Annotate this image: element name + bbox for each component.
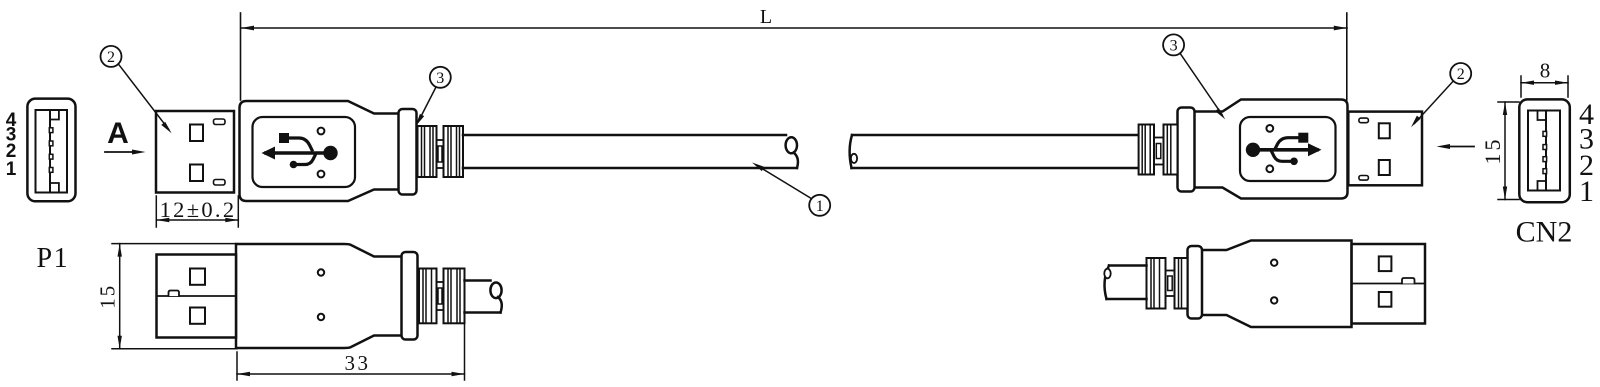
left plug moulding label panel [253, 117, 356, 187]
cable left break end [786, 137, 797, 153]
left plug bottom view ejector mark bottom [318, 314, 324, 320]
cable stub bottom view top edge [465, 279, 491, 282]
svg-text:1: 1 [816, 198, 824, 215]
USB logo left: pin hole top [318, 128, 325, 135]
dimension 33 [237, 316, 465, 380]
connector P1 bottom notch [50, 183, 59, 193]
right plug bottom view metal shell [1352, 244, 1425, 324]
left plug bottom view strain relief lip [402, 252, 418, 340]
right plug molded body side view [1194, 100, 1348, 199]
right plug shell hole lower [1379, 160, 1390, 175]
right plug bottom view shell seam [1352, 283, 1425, 285]
cable stub right bottom view bottom edge [1107, 298, 1147, 301]
left plug bottom view rib block 1 [419, 269, 437, 324]
cable left segment bottom edge [463, 167, 797, 170]
right plug metal shell side view [1348, 112, 1422, 186]
connector P1 top notch [50, 110, 59, 120]
right plug bottom view ejector mark top [1271, 260, 1277, 266]
right plug shell hole upper [1379, 123, 1390, 138]
cable stub bottom view break end [490, 283, 501, 299]
right plug bottom view shell hole lower [1379, 292, 1392, 307]
svg-text:L: L [760, 6, 772, 28]
svg-text:3: 3 [436, 70, 444, 87]
connector CN2 top notch [1538, 111, 1547, 121]
P1 pin numbers 4 3 2 1 [6, 110, 17, 180]
dimension 8 [1521, 76, 1568, 97]
USB logo right: arrowhead [1308, 143, 1322, 156]
view arrow right [1437, 144, 1475, 149]
svg-text:33: 33 [345, 351, 371, 375]
svg-text:3: 3 [1170, 38, 1178, 55]
cable right segment top edge [852, 134, 1139, 137]
USB logo left: shaft [266, 151, 330, 155]
USB logo left: square [279, 133, 289, 143]
left plug shell slot lower [214, 180, 226, 186]
connector CN2 bottom notch [1538, 181, 1547, 191]
balloon 1 [752, 163, 830, 216]
USB logo right: pin hole bottom [1266, 165, 1273, 172]
USB logo right: upper branch [1276, 138, 1300, 148]
right plug bottom view rib block 1 [1147, 258, 1166, 309]
connector P1 front view outer shell [27, 99, 75, 202]
right plug shell slot upper [1359, 118, 1369, 123]
left plug bottom view shell hole lower [190, 308, 205, 324]
left plug strain relief rib block 2 [444, 126, 464, 177]
cable stub right bottom view break start [1105, 266, 1110, 300]
right plug bottom view rib block 2 [1175, 258, 1188, 309]
left plug shell hole upper [190, 125, 203, 142]
right plug bottom view strain relief lip [1188, 246, 1203, 319]
right plug strain relief rib block 2 [1164, 125, 1178, 175]
dimension 15 left [112, 244, 237, 349]
svg-text:15: 15 [96, 284, 120, 309]
left plug shell hole lower [190, 165, 203, 182]
connector P1 tongue divider line [49, 110, 51, 193]
left plug bottom view shell hole upper [190, 269, 205, 285]
cable right segment bottom edge [852, 167, 1139, 170]
left plug strain relief lip [399, 109, 417, 195]
cable right break start [850, 135, 852, 168]
CN2 pin numbers 4 3 2 1 [1579, 98, 1594, 208]
left plug strain relief waist [437, 140, 444, 168]
balloon 2 right [1411, 63, 1471, 127]
dimension L overall length [241, 13, 1348, 100]
left plug bottom view ejector mark top [318, 269, 324, 275]
balloon 3 left [416, 67, 451, 127]
USB logo left: small circle [290, 161, 298, 169]
svg-text:1: 1 [1579, 175, 1594, 208]
USB logo right: pin hole top [1266, 125, 1273, 132]
cable stub right bottom view top edge [1109, 264, 1147, 267]
right plug moulding label panel [1240, 117, 1336, 181]
svg-text:12±0.2: 12±0.2 [160, 197, 237, 222]
left plug bottom view shell seam [157, 295, 237, 297]
left plug molded body side view [240, 101, 400, 201]
right plug strain relief lip [1178, 108, 1195, 192]
right plug strain relief waist [1154, 138, 1164, 165]
left plug strain relief rib block 1 [418, 126, 437, 177]
connector CN2 front view outer shell [1519, 99, 1570, 202]
svg-text:P1: P1 [37, 243, 70, 274]
balloon 3 right [1163, 34, 1225, 119]
USB logo left: upper branch [288, 138, 312, 150]
connector P1 front view inner opening [36, 110, 68, 193]
connector CN2 contact bumps [1543, 131, 1547, 173]
left plug bottom view seam tab [169, 291, 180, 297]
dimension 15 right [1498, 102, 1519, 200]
right plug bottom view strain relief waist [1166, 271, 1175, 297]
svg-text:2: 2 [107, 49, 115, 66]
svg-text:1: 1 [6, 159, 17, 180]
left plug metal shell side view [156, 111, 234, 193]
svg-text:8: 8 [1540, 59, 1551, 83]
USB logo right: small circle [1290, 158, 1298, 166]
left plug shell slot upper [214, 119, 226, 125]
USB logo left: lower branch [295, 156, 315, 165]
left plug bottom view molded body [236, 244, 402, 348]
balloon 2 left [101, 46, 172, 133]
connector CN2 tongue divider line [1545, 111, 1547, 191]
right plug strain relief rib block 1 [1139, 125, 1154, 175]
USB logo right: shaft [1253, 148, 1317, 152]
right plug bottom view shell hole upper [1379, 256, 1392, 271]
view arrow A [105, 117, 146, 155]
USB logo left: big circle [323, 146, 337, 160]
connector CN2 front view inner opening [1528, 111, 1560, 191]
USB logo left: pin hole bottom [318, 171, 325, 178]
right plug bottom view molded body [1201, 241, 1352, 328]
svg-text:2: 2 [1457, 66, 1465, 83]
right plug shell slot lower [1359, 176, 1369, 181]
connector P1 contact bumps [49, 128, 53, 173]
USB logo right: big circle [1246, 143, 1260, 157]
svg-text:CN2: CN2 [1516, 216, 1573, 249]
svg-text:15: 15 [1480, 137, 1505, 165]
right plug bottom view seam tab [1402, 278, 1415, 284]
left plug bottom view strain relief waist [437, 282, 444, 310]
cable left segment top edge [463, 134, 786, 137]
right plug bottom view ejector mark bottom [1271, 297, 1277, 303]
svg-text:A: A [107, 117, 129, 150]
USB logo left: arrowhead [262, 147, 276, 160]
cable stub bottom view bottom edge [465, 311, 501, 314]
left plug bottom view rib block 2 [444, 269, 465, 324]
USB logo right: lower branch [1272, 152, 1292, 161]
dimension 12±0.2 [156, 196, 238, 227]
USB logo right: square [1298, 133, 1308, 143]
left plug bottom view metal shell [157, 255, 237, 338]
